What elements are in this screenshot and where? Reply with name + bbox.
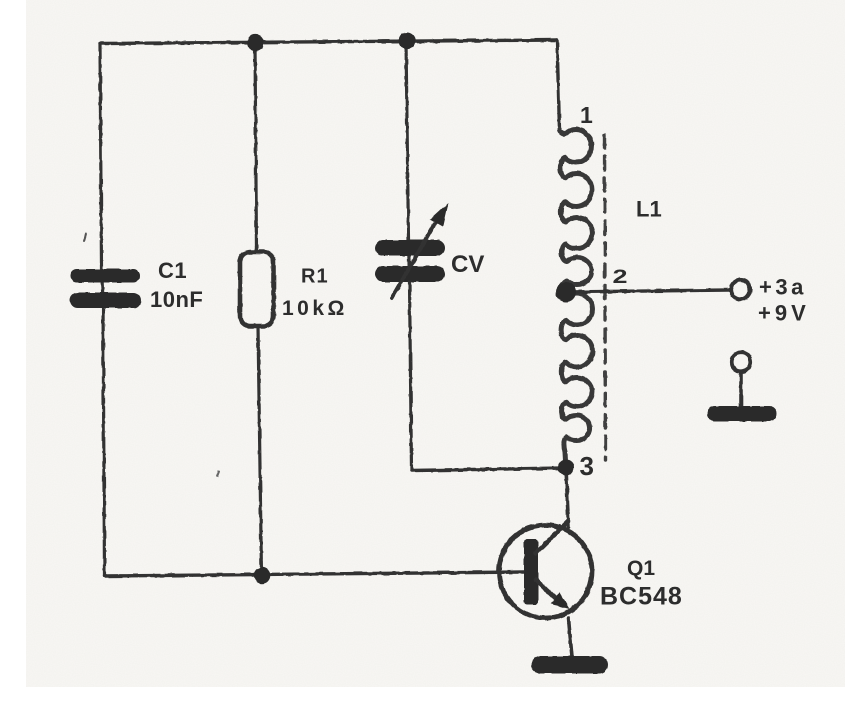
svg-text:C1: C1 (158, 258, 187, 283)
capacitor C1 top plate (70, 269, 140, 283)
svg-text:+9V: +9V (758, 301, 810, 326)
svg-text:+3a: +3a (759, 275, 807, 300)
junction node: bottom rail / R1 (254, 567, 271, 584)
junction node: L1 tap 3 (558, 460, 574, 476)
wire: R1 top lead (255, 43, 257, 253)
svg-text:1: 1 (580, 102, 593, 128)
wire: CV top lead (406, 41, 410, 282)
transistor Q1 collector stroke (536, 521, 569, 553)
svg-text:2: 2 (613, 267, 628, 288)
wire: top rail down to L1 (557, 40, 560, 130)
ground symbol under Q1 (531, 656, 608, 674)
transistor Q1 circle (499, 525, 592, 618)
junction node: top rail / CV (399, 33, 416, 50)
junction node: L1 tap 2 (556, 282, 576, 302)
wire: L1 tap 3 down to Q1 collector (566, 468, 569, 528)
L1 core dashed line (605, 135, 606, 460)
wire: CV to L1 tap 3 (412, 468, 567, 471)
transistor Q1 emitter stroke with arrow (536, 580, 558, 601)
svg-text:R1: R1 (301, 266, 329, 288)
ground symbol at auxiliary terminal (707, 406, 777, 422)
wire: bottom rail to Q1 base (105, 572, 525, 576)
svg-text:L1: L1 (636, 197, 662, 222)
capacitor CV top plate (375, 240, 445, 256)
svg-text:10nF: 10nF (150, 287, 203, 312)
wire: top rail (100, 40, 557, 44)
svg-text:10kΩ: 10kΩ (282, 297, 348, 320)
svg-text:BC548: BC548 (600, 583, 683, 611)
svg-text:3: 3 (580, 451, 594, 481)
wire: tap 2 to +V terminal (568, 290, 730, 292)
wire: auxiliary terminal to ground (739, 373, 743, 407)
stray speck (217, 471, 219, 476)
wire: Q1 emitter to ground (569, 619, 573, 658)
wire: R1 bottom lead (258, 326, 262, 575)
stray mark (84, 234, 86, 241)
resistor R1 body (240, 252, 274, 326)
transistor Q1 base bar (524, 539, 539, 605)
output terminal circle (+9V) (731, 280, 750, 299)
wire: CV bottom lead (410, 282, 412, 471)
wire: left vertical (C1 leads) (100, 44, 105, 577)
capacitor CV bottom plate (375, 266, 445, 282)
junction node: top rail / R1 (247, 34, 264, 51)
svg-text:CV: CV (451, 251, 484, 278)
capacitor C1 bottom plate (70, 293, 141, 309)
inductor L1 winding (560, 129, 593, 461)
CV adjustment arrow (392, 220, 437, 298)
auxiliary terminal circle (732, 353, 751, 372)
svg-text:Q1: Q1 (627, 557, 655, 580)
